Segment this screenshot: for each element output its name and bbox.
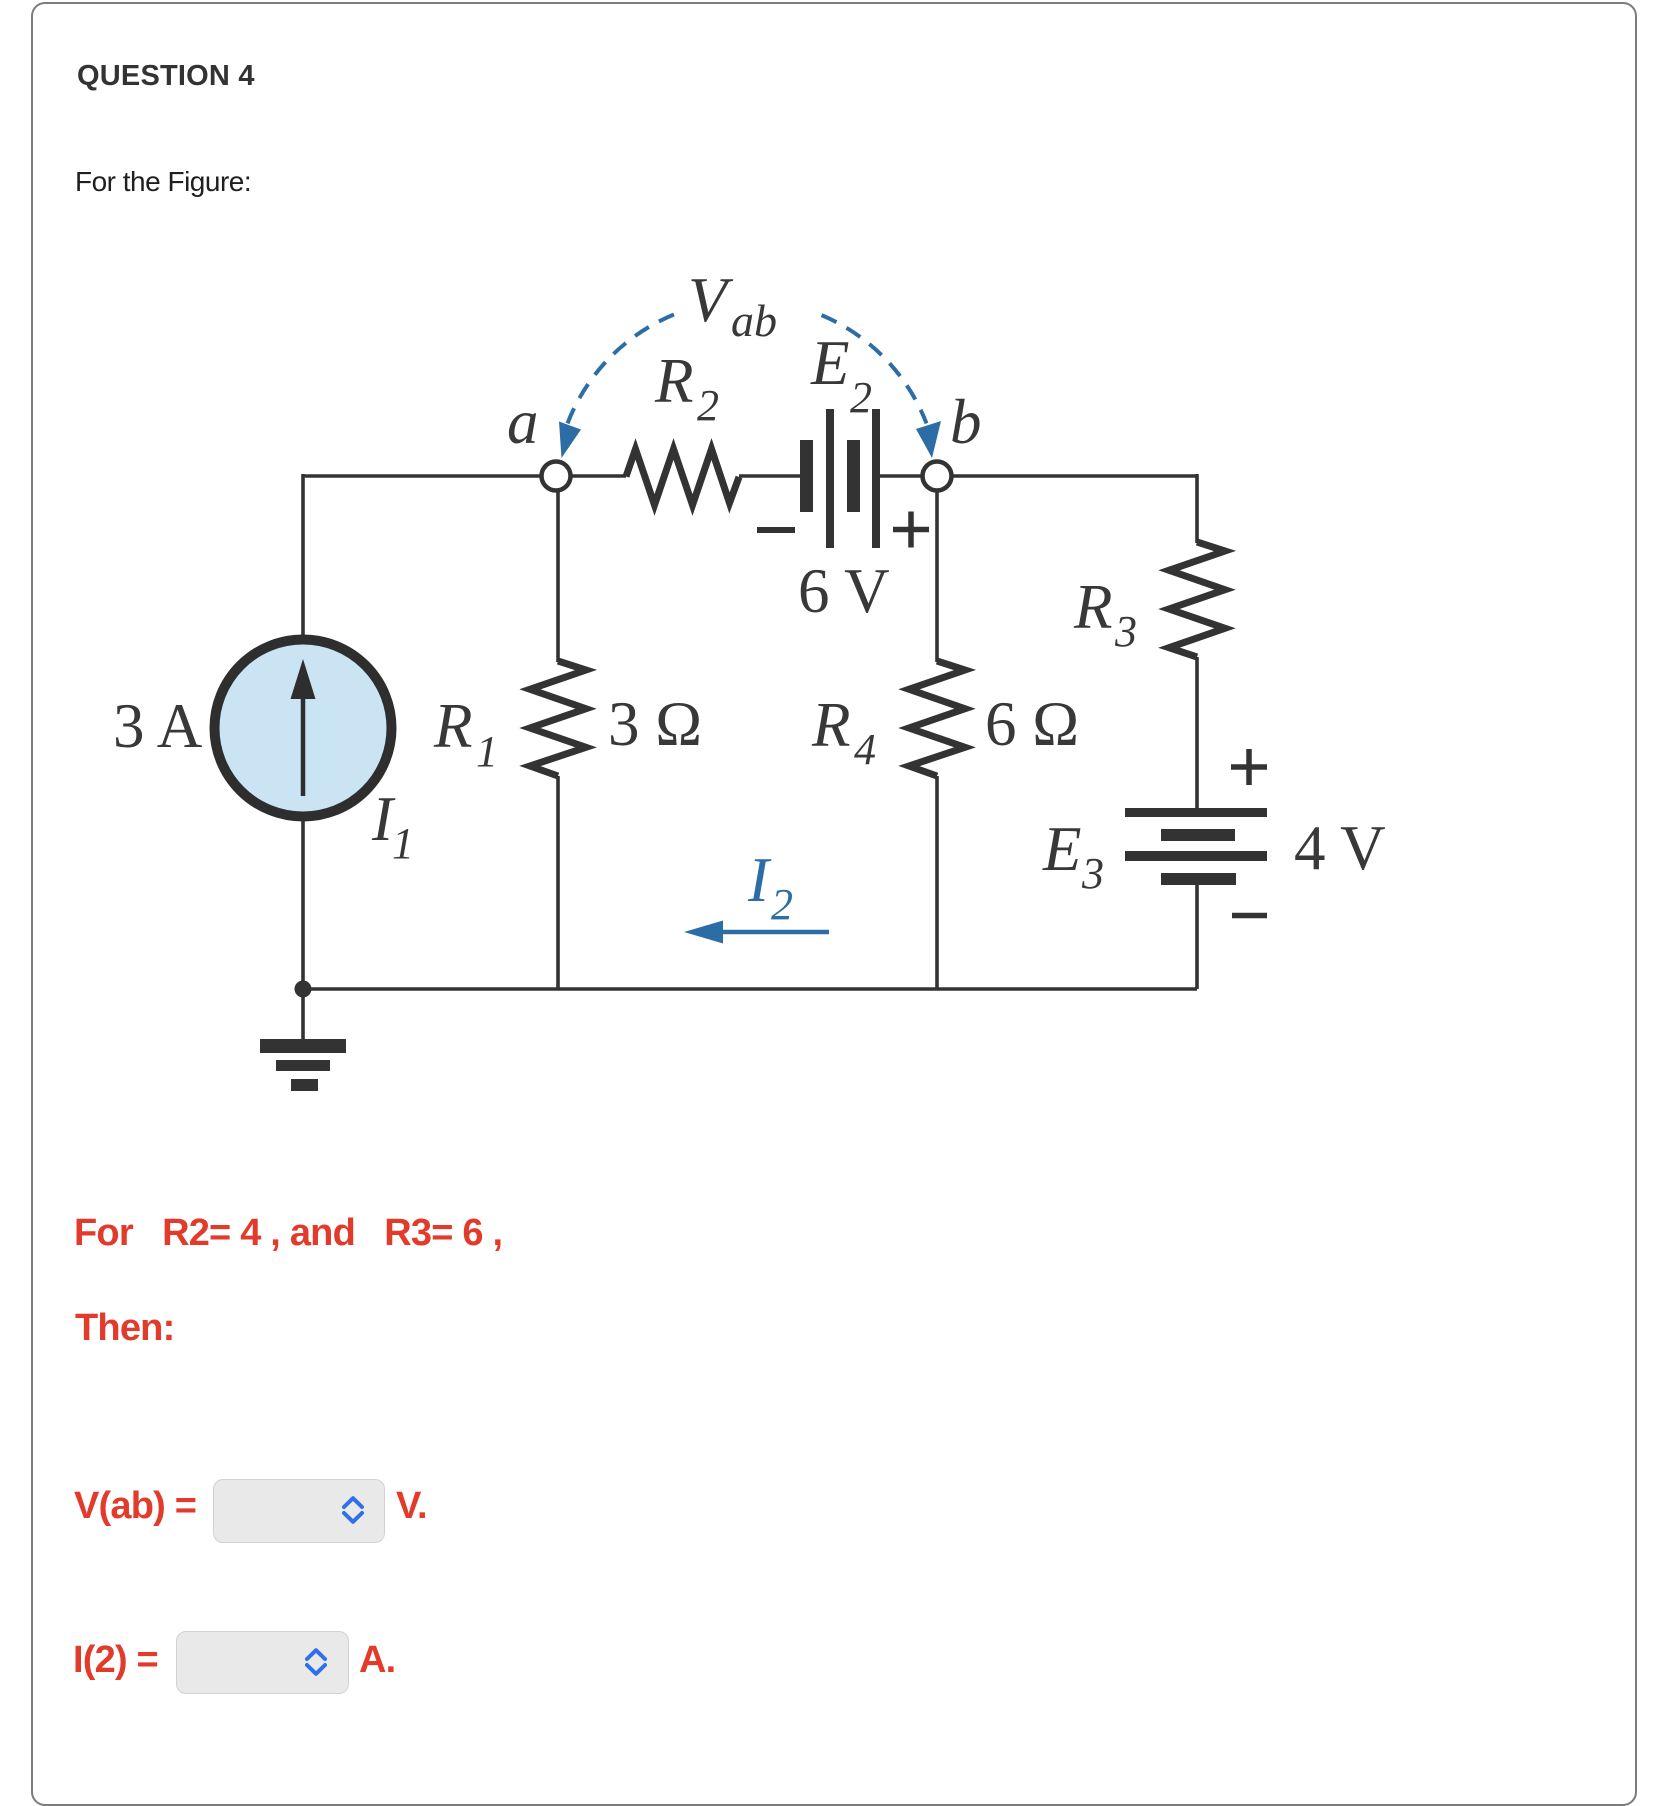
label plus E3 bbox=[1231, 764, 1267, 770]
heading QUESTION 4 bbox=[77, 60, 255, 93]
wire right branch lower (E3 to bottom) bbox=[1195, 884, 1199, 989]
wire top-left: left corner to R2 bbox=[303, 474, 626, 478]
white mask behind Vab label bbox=[680, 260, 812, 342]
wire bottom bbox=[303, 987, 1197, 991]
svg-text:a: a bbox=[507, 387, 539, 457]
label minus E3 bbox=[1232, 913, 1267, 919]
svg-text:E: E bbox=[1042, 814, 1081, 884]
svg-text:3: 3 bbox=[1114, 607, 1137, 656]
svg-text:I: I bbox=[747, 845, 772, 915]
wire branch R4 upper (node b to R4) bbox=[935, 476, 939, 662]
svg-text:R: R bbox=[433, 691, 472, 761]
red prompt line 1 bbox=[74, 1212, 502, 1255]
arrowhead at node b bbox=[916, 421, 941, 458]
answer row I(2) bbox=[73, 1639, 158, 1682]
svg-text:6 Ω: 6 Ω bbox=[985, 689, 1079, 759]
wire right branch upper (corner to R3) bbox=[1195, 474, 1199, 543]
node a circle bbox=[542, 462, 571, 491]
current source I1 circle bbox=[215, 640, 392, 817]
svg-text:1: 1 bbox=[392, 819, 414, 868]
svg-text:R: R bbox=[811, 690, 850, 760]
junction dot bbox=[295, 981, 312, 998]
svg-text:3: 3 bbox=[1081, 849, 1104, 898]
arrowhead at node a bbox=[559, 422, 581, 459]
ground symbol bbox=[260, 1039, 346, 1091]
label plus E2 bbox=[893, 527, 929, 533]
node b circle bbox=[923, 462, 952, 491]
svg-text:R: R bbox=[1073, 572, 1112, 642]
resistor R1 zigzag bbox=[530, 661, 586, 776]
wire right branch mid (R3 to E3) bbox=[1195, 657, 1199, 809]
wire ground stub bbox=[301, 989, 305, 1040]
battery E3 plates bbox=[1125, 808, 1267, 885]
answer row V(ab) bbox=[74, 1485, 196, 1528]
wire left branch lower (source to bottom junction) bbox=[301, 816, 305, 989]
svg-text:3 Ω: 3 Ω bbox=[608, 689, 702, 759]
battery E2 plates bbox=[800, 409, 880, 548]
resistor R2 zigzag bbox=[626, 449, 739, 505]
svg-text:4 V: 4 V bbox=[1294, 813, 1386, 883]
resistor R4 zigzag bbox=[909, 661, 965, 776]
wire between R2 and E2 bbox=[739, 474, 801, 478]
wire branch R4 lower (R4 to bottom wire) bbox=[935, 776, 939, 989]
svg-text:2: 2 bbox=[697, 381, 719, 430]
wire branch R1 lower (R1 to bottom wire) bbox=[556, 776, 560, 989]
current arrow I2 bbox=[721, 930, 829, 935]
wire left branch upper (top corner to source) bbox=[301, 474, 305, 640]
wire E2 to top-right corner bbox=[879, 474, 1197, 478]
svg-text:E: E bbox=[810, 328, 849, 398]
svg-text:6 V: 6 V bbox=[798, 556, 890, 626]
label minus E2 bbox=[757, 527, 795, 533]
svg-text:2: 2 bbox=[850, 373, 872, 422]
svg-text:ab: ab bbox=[731, 295, 777, 346]
wire branch R1 upper (node a to R1) bbox=[556, 476, 560, 662]
svg-text:R: R bbox=[654, 346, 693, 416]
current source arrow bbox=[301, 675, 306, 796]
svg-text:b: b bbox=[950, 387, 982, 457]
svg-text:3 A: 3 A bbox=[113, 691, 203, 761]
svg-text:4: 4 bbox=[854, 725, 876, 774]
svg-text:1: 1 bbox=[476, 727, 498, 776]
text For the Figure: bbox=[75, 166, 251, 198]
red prompt line 2 bbox=[75, 1307, 174, 1350]
Vab dashed measurement arc bbox=[568, 300, 927, 423]
resistor R3 zigzag bbox=[1169, 542, 1225, 657]
svg-text:2: 2 bbox=[771, 880, 793, 929]
